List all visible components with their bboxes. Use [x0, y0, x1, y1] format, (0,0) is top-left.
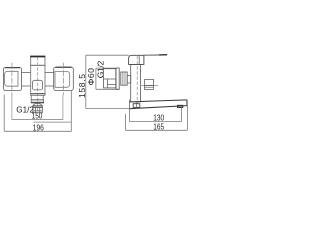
front view: spout dome: [33, 104, 42, 106]
front view: body center dashed line: [37, 57, 39, 112]
dimension 150 line: [12, 119, 63, 121]
front view: spout dark band: [33, 106, 42, 108]
svg-text:150: 150: [32, 112, 43, 121]
side view: diverter knob under spout: [133, 104, 140, 108]
front view: body column: [31, 65, 45, 93]
side view: handle seam: [138, 55, 140, 64]
front view: diverter knob on body: [32, 80, 42, 90]
side view: phi60 dimension line with extensions: [96, 68, 119, 89]
front view: spout dark line: [31, 102, 44, 104]
side view: spout back edge: [128, 100, 130, 109]
front view: left arm: [22, 72, 31, 86]
side view: body center dashed line: [136, 56, 138, 104]
side view: wall escutcheon flange: [116, 68, 119, 89]
front view: right arm: [45, 72, 54, 86]
front view: right flange center line: [62, 63, 65, 120]
side view: faucet body: [131, 64, 141, 102]
dimension 196: line and right extension: [34, 91, 72, 132]
front view: left flange center line: [11, 63, 13, 120]
bottom overall dimension line: [4, 95, 71, 132]
side view: 158.5 dimension line: [86, 55, 130, 108]
front view: handle block: [30, 56, 45, 65]
side view: aerator nozzle at spout tip: [178, 105, 183, 107]
side view: connector neck: [127, 76, 131, 83]
side view: handle block: [129, 55, 144, 64]
side view: union nut with ribs: [121, 72, 127, 85]
side view: spout outline: [129, 100, 187, 109]
front view: spout mount step: [31, 95, 43, 100]
front view: right wall flange outer: [54, 67, 74, 91]
dimension 165: extensions and line: [126, 100, 188, 130]
svg-text:G1/2: G1/2: [95, 61, 105, 79]
front view: left flange inner nut: [5, 71, 18, 86]
dimension 130: extensions and line: [129, 108, 181, 122]
side view: inlet union body: [103, 69, 115, 88]
front view: body bottom seam band: [31, 93, 45, 95]
front view: spout upper band: [31, 100, 43, 102]
front view: right flange inner nut: [55, 71, 70, 87]
svg-text:165: 165: [153, 122, 164, 131]
side view: check valve center line: [141, 85, 159, 87]
side view: front knob: [144, 80, 153, 90]
side view: spout root seam: [135, 102, 137, 108]
side view: lever stick: [144, 54, 167, 57]
svg-text:130: 130: [153, 114, 164, 123]
front view: spout face with aerator: [33, 107, 42, 113]
front view: left wall flange outer: [3, 67, 21, 90]
